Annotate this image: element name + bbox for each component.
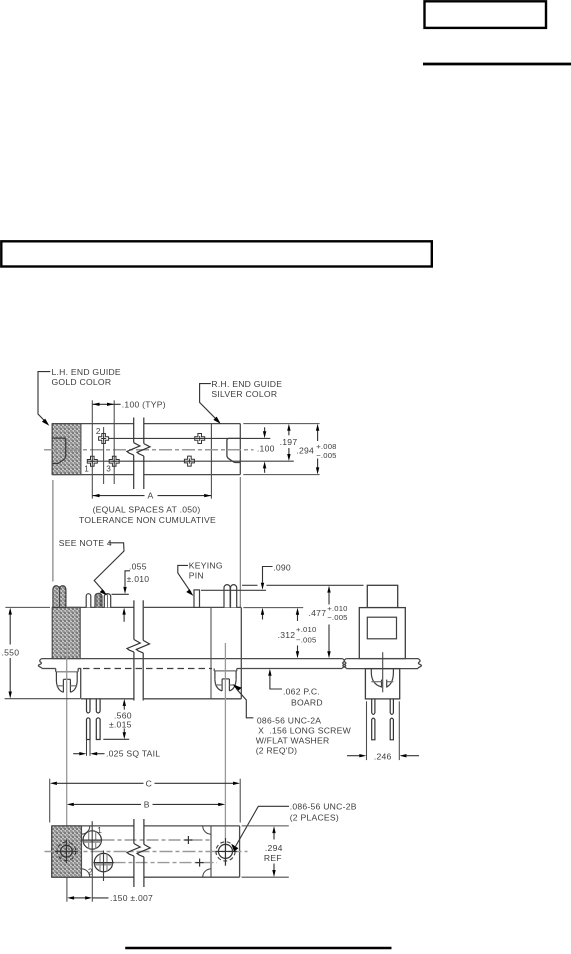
dimension .560 ±.015 xyxy=(103,699,131,739)
bottom view right separator xyxy=(210,826,212,877)
side view body xyxy=(359,608,405,659)
top view contact row line 2 (lower) xyxy=(87,460,294,462)
dimension .100 row spacing xyxy=(257,427,275,473)
contact pin P1 xyxy=(86,594,91,608)
solder tail T2 xyxy=(96,699,100,740)
svg-text:.294: .294 xyxy=(265,843,283,853)
svg-text:KEYING: KEYING xyxy=(189,560,223,570)
dimension .294 +.008 -.005 xyxy=(296,424,336,475)
svg-text:W/FLAT WASHER: W/FLAT WASHER xyxy=(256,735,330,745)
projection line right xyxy=(239,477,241,607)
svg-text:.100: .100 xyxy=(257,444,275,454)
wide empty header box xyxy=(1,241,432,266)
contact pin P2 (gold, hatched) xyxy=(95,593,102,607)
left screw centerline xyxy=(66,644,68,877)
right end pins (pair) xyxy=(224,585,237,608)
bottom view hole labels xyxy=(88,826,102,877)
svg-text:−.005: −.005 xyxy=(296,636,316,645)
top right horizontal rule xyxy=(423,63,571,66)
svg-text:−.005: −.005 xyxy=(327,613,347,622)
leader and note .086-56 UNC-2B xyxy=(231,802,357,852)
svg-text:.246: .246 xyxy=(374,752,392,762)
solder tail T1 xyxy=(87,699,91,740)
dimension .090 xyxy=(261,563,291,620)
label SEE NOTE 4 with leader xyxy=(59,538,124,596)
contact position cross 1 xyxy=(87,456,97,466)
svg-text:+.008: +.008 xyxy=(316,442,336,451)
svg-text:.312: .312 xyxy=(278,630,296,640)
top view R.H. end guide separator xyxy=(210,424,212,475)
svg-text:A: A xyxy=(148,491,154,501)
PC board hidden bottom edge (dashed) xyxy=(83,668,212,670)
svg-text:.062 P.C.: .062 P.C. xyxy=(283,687,320,697)
svg-text:3: 3 xyxy=(106,465,111,474)
svg-text:BOARD: BOARD xyxy=(291,698,323,708)
svg-text:086-56 UNC-2A: 086-56 UNC-2A xyxy=(257,715,321,725)
dimension .246 xyxy=(347,701,419,761)
svg-text:(EQUAL SPACES AT .050): (EQUAL SPACES AT .050) xyxy=(93,505,201,515)
svg-text:PIN: PIN xyxy=(189,571,204,581)
svg-text:1: 1 xyxy=(97,826,102,835)
dimension .100 TYP xyxy=(92,399,166,409)
bottom view row centerlines xyxy=(103,840,218,863)
svg-text:−.005: −.005 xyxy=(316,451,336,460)
svg-text:±.015: ±.015 xyxy=(109,719,132,729)
bottom view mid centerline xyxy=(45,851,248,853)
top view extension verticals xyxy=(92,400,211,498)
dimension .025 SQ TAIL xyxy=(73,740,160,759)
svg-text:.477: .477 xyxy=(309,608,327,618)
leader and note 086-56 UNC-2A screw xyxy=(233,684,352,755)
top view body outline xyxy=(52,424,240,475)
svg-text:X .156 LONG SCREW: X .156 LONG SCREW xyxy=(258,726,351,736)
title block box top right xyxy=(425,1,547,28)
svg-text:.090: .090 xyxy=(273,563,291,573)
PC board front view top edge with wavy ends xyxy=(38,659,345,669)
contact hole 2 xyxy=(93,851,114,882)
svg-text:2: 2 xyxy=(96,427,101,436)
side view PC board with wavy ends xyxy=(343,659,422,669)
top view right guide slot xyxy=(227,438,240,462)
left mounting hole xyxy=(55,840,78,864)
svg-text:.086-56 UNC-2B: .086-56 UNC-2B xyxy=(290,802,357,812)
dimension .312 +.010 -.005 xyxy=(278,608,317,659)
svg-text:SEE NOTE 4: SEE NOTE 4 xyxy=(59,538,112,548)
top view break lines with zigzag xyxy=(127,418,150,490)
side view solder tails xyxy=(372,699,394,740)
side view contact tip block xyxy=(367,585,397,607)
label R.H. END GUIDE xyxy=(200,379,283,424)
svg-text:B: B xyxy=(144,800,150,810)
front view gold end guide hatch block xyxy=(52,607,80,658)
dimension .294 REF xyxy=(242,826,289,877)
svg-text:R.H. END GUIDE: R.H. END GUIDE xyxy=(211,379,282,389)
front view gold guide post with rounded tips xyxy=(53,586,66,608)
dimension C xyxy=(50,778,241,822)
contact cross right lower xyxy=(184,456,194,466)
body top extension line right xyxy=(243,607,303,609)
top view left guide slot xyxy=(53,438,66,463)
svg-text:.150 ±.007: .150 ±.007 xyxy=(110,893,153,903)
left mounting screw with washer xyxy=(56,669,78,693)
front view break lines with zigzag xyxy=(127,600,150,700)
contact tip level extension line xyxy=(242,584,364,586)
label KEYING PIN with leader xyxy=(178,560,223,596)
top view right side extension lines xyxy=(243,424,319,475)
svg-text:SILVER COLOR: SILVER COLOR xyxy=(211,389,277,399)
bottom view gold end hatch xyxy=(52,826,82,877)
bottom view break lines with zigzag xyxy=(127,819,150,887)
top view L.H. gold end guide hatch xyxy=(52,424,81,475)
footer rule xyxy=(125,947,391,950)
side view screw and washer inside housing xyxy=(371,669,393,688)
svg-text:(2 PLACES): (2 PLACES) xyxy=(290,813,339,823)
dimension .550 xyxy=(2,607,81,698)
dimension .197 xyxy=(280,424,298,461)
svg-text:REF: REF xyxy=(264,853,282,863)
side view body window xyxy=(367,617,396,639)
keying pin top extension line xyxy=(201,589,266,591)
dimension .062 P.C. BOARD xyxy=(268,669,323,708)
svg-text:.550: .550 xyxy=(2,648,20,658)
top view centerline xyxy=(44,449,254,451)
side view screw centerline xyxy=(382,652,384,692)
svg-text:1: 1 xyxy=(84,465,89,474)
bottom view fillet arcs xyxy=(82,826,212,877)
label L.H. END GUIDE xyxy=(38,367,121,426)
svg-text:.055: .055 xyxy=(129,561,147,571)
front view body outline xyxy=(52,607,241,698)
svg-text:+.010: +.010 xyxy=(296,625,316,634)
contact cross right upper xyxy=(195,434,205,444)
svg-text:+.010: +.010 xyxy=(327,604,347,613)
dimension .055 ±.010 xyxy=(112,561,150,622)
row reference + marks xyxy=(184,836,203,867)
right screw centerline xyxy=(224,643,226,866)
dimension .477 +.010 -.005 xyxy=(309,586,348,659)
contact hole 1 xyxy=(82,821,103,866)
contact pin P3 xyxy=(104,594,110,608)
projection line left xyxy=(52,480,54,582)
svg-text:.197: .197 xyxy=(280,437,298,447)
threaded hole .086-56 UNC-2B xyxy=(216,838,237,865)
bottom view body outline xyxy=(52,826,240,877)
contact number labels xyxy=(84,427,111,474)
svg-text:(2 REQ'D): (2 REQ'D) xyxy=(256,745,298,755)
svg-text:TOLERANCE NON CUMULATIVE: TOLERANCE NON CUMULATIVE xyxy=(79,515,216,525)
contact position cross 2 xyxy=(99,434,109,444)
svg-text:GOLD COLOR: GOLD COLOR xyxy=(52,377,112,387)
svg-text:±.010: ±.010 xyxy=(127,574,150,584)
contact position cross 3 xyxy=(109,456,119,466)
PC board front view bottom edge solid segments xyxy=(42,668,343,670)
top view contact row line 1 (upper) xyxy=(109,437,270,439)
svg-text:.294: .294 xyxy=(296,445,314,455)
side view lower housing xyxy=(365,669,399,699)
svg-text:.100 (TYP): .100 (TYP) xyxy=(122,399,166,409)
dimension B xyxy=(67,800,225,810)
right mounting screw with washer xyxy=(214,669,237,691)
svg-text:L.H. END GUIDE: L.H. END GUIDE xyxy=(52,367,121,377)
svg-text:C: C xyxy=(146,778,152,788)
dimension A xyxy=(79,491,216,526)
dimension .150 ±.007 xyxy=(67,866,153,903)
svg-text:.025 SQ TAIL: .025 SQ TAIL xyxy=(106,749,160,759)
keying pin xyxy=(194,590,200,608)
